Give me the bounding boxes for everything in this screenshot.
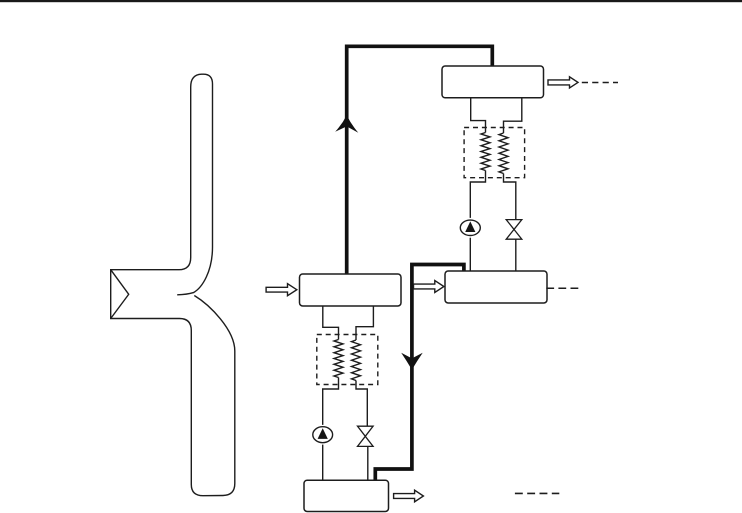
left module: right coil spring xyxy=(352,340,361,381)
duct (crank-shaped pipe) outline xyxy=(111,74,235,496)
duct inlet notch (triangle) xyxy=(111,270,129,319)
left module: heat exchanger dashed enclosure xyxy=(317,335,378,385)
right module: pipe valve to bottom vessel xyxy=(515,239,517,271)
right module: left coil spring xyxy=(481,133,490,171)
right module: pipe pump to bottom vessel xyxy=(469,238,471,271)
left module: pipe spring to pump xyxy=(323,378,339,425)
right module: valve (bowtie) xyxy=(506,220,522,240)
right module: outlet arrow xyxy=(548,77,578,88)
left module: right pipe from vessel to spring xyxy=(356,306,373,340)
left module: bottom vessel xyxy=(304,480,389,511)
right module: left pipe from vessel to spring xyxy=(471,98,486,133)
left module: valve (bowtie) xyxy=(358,426,374,446)
right module: heat exchanger dashed enclosure xyxy=(464,128,524,178)
left module: outlet arrow xyxy=(394,490,424,502)
right module: bottom vessel xyxy=(445,271,547,303)
right module: right pipe from vessel to spring xyxy=(504,98,522,133)
right module: pipe spring to pump xyxy=(470,171,485,218)
right module: right coil spring xyxy=(499,133,508,174)
left module: left pipe from vessel to spring xyxy=(323,306,339,340)
left module: pipe pump to bottom vessel xyxy=(322,445,324,481)
left module: inlet arrow xyxy=(266,284,297,296)
top rule xyxy=(0,0,742,2)
right module: pump P (circle + triangle) xyxy=(460,220,480,235)
down flow arrowhead xyxy=(401,353,423,370)
right module: outlet dashed line xyxy=(582,82,618,84)
right module: top vessel xyxy=(442,66,544,98)
right module: bottom vessel dashed line xyxy=(546,287,579,289)
left module: pipe spring to valve xyxy=(356,381,367,427)
up flow arrowhead xyxy=(335,115,358,133)
left module: left coil spring xyxy=(334,340,343,378)
right module: pipe spring to valve xyxy=(504,174,516,220)
legend dashed line xyxy=(515,492,559,494)
thick vapour line: left evaporator top to right condenser (with corner) xyxy=(347,46,493,274)
thick liquid return line: right module to left module bottom box xyxy=(375,265,464,481)
left module: pipe valve to bottom vessel xyxy=(367,446,369,480)
right module: inlet arrow xyxy=(414,281,444,293)
left module: top vessel xyxy=(300,274,402,306)
left module: pump P (circle + triangle) xyxy=(313,427,333,443)
